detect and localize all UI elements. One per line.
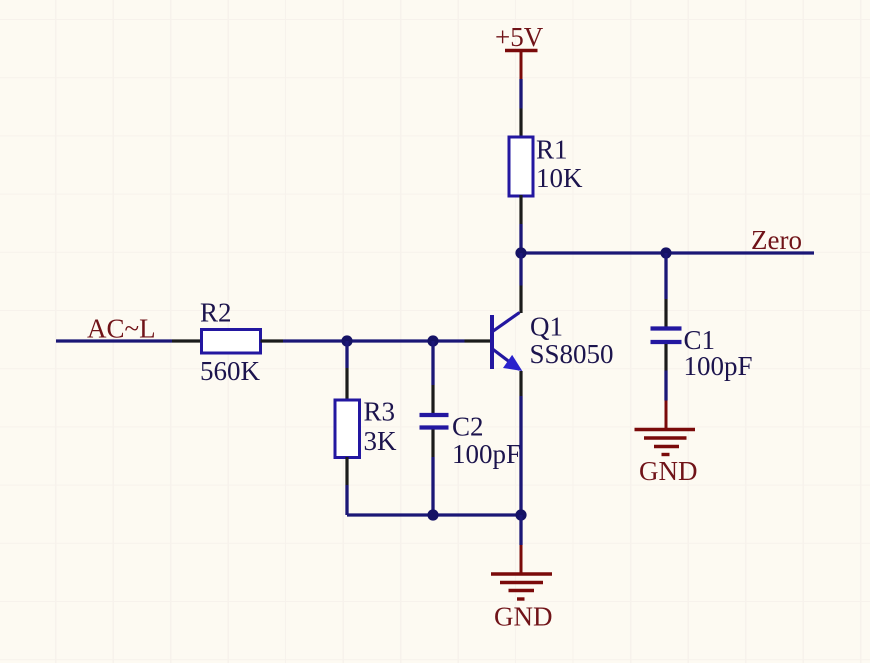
svg-text:+5V: +5V [495,22,544,52]
ground symbol (C1) [635,401,696,455]
svg-text:R1: R1 [536,135,568,165]
wire R3 bottom [345,485,348,515]
svg-text:R3: R3 [364,397,396,427]
wire C2 bottom [431,457,434,515]
svg-text:560K: 560K [200,356,261,386]
svg-text:100pF: 100pF [452,439,521,469]
wire base net [283,339,465,342]
pin R2.1 [172,339,202,342]
resistor R3 [335,400,360,458]
pin Q1 base [465,339,491,342]
svg-text:C2: C2 [452,412,484,442]
svg-text:10K: 10K [536,163,583,193]
wire Zero net horizontal [521,251,814,254]
pin Q1 emitter [519,371,522,396]
wire R3 top [345,341,348,368]
pin C1.1 [664,299,667,327]
wire +5V to R1 pin 1 [519,79,522,109]
wire emitter to bottom node [519,396,522,515]
junction collector node [515,247,526,258]
junction C2 tap node [427,335,438,346]
wire C2 top [431,341,434,385]
resistor R1 [509,137,533,196]
svg-text:GND: GND [639,456,698,486]
wire C1 bottom [664,371,667,401]
junction C2 bottom node [427,509,438,520]
pin R3.2 [345,457,348,485]
pin Q1 collector [519,286,522,314]
pin R1.2 [519,195,522,224]
pin C1.2 [664,344,667,371]
junction R3 tap node [341,335,352,346]
wire C1 top [664,253,667,299]
wire R1 pin 2 to collector node [519,224,522,253]
junction emitter bottom node [515,509,526,520]
transistor Q1 [492,313,521,371]
svg-text:Q1: Q1 [530,312,563,342]
svg-text:3K: 3K [364,426,398,456]
power symbol +5V [505,51,538,80]
svg-text:AC~L: AC~L [87,314,156,344]
pin R3.1 [345,368,348,401]
svg-text:100pF: 100pF [684,351,753,381]
wire AC~L input [56,339,172,342]
junction C1 tap node [660,247,671,258]
svg-text:R2: R2 [200,298,232,328]
pin R1.1 [519,109,522,139]
capacitor C1 [651,329,682,343]
capacitor C2 [420,415,449,428]
wire node to ground [519,515,522,545]
wire node to Q1 collector pin [519,253,522,286]
pin C2.1 [431,385,434,413]
wire bottom rail [347,513,521,516]
svg-text:Zero: Zero [751,225,802,255]
svg-text:SS8050: SS8050 [530,339,614,369]
pin R2.2 [261,339,284,342]
resistor R2 [202,330,261,354]
pin C2.2 [431,430,434,458]
svg-text:GND: GND [494,602,553,632]
ground symbol (emitter) [491,545,552,599]
